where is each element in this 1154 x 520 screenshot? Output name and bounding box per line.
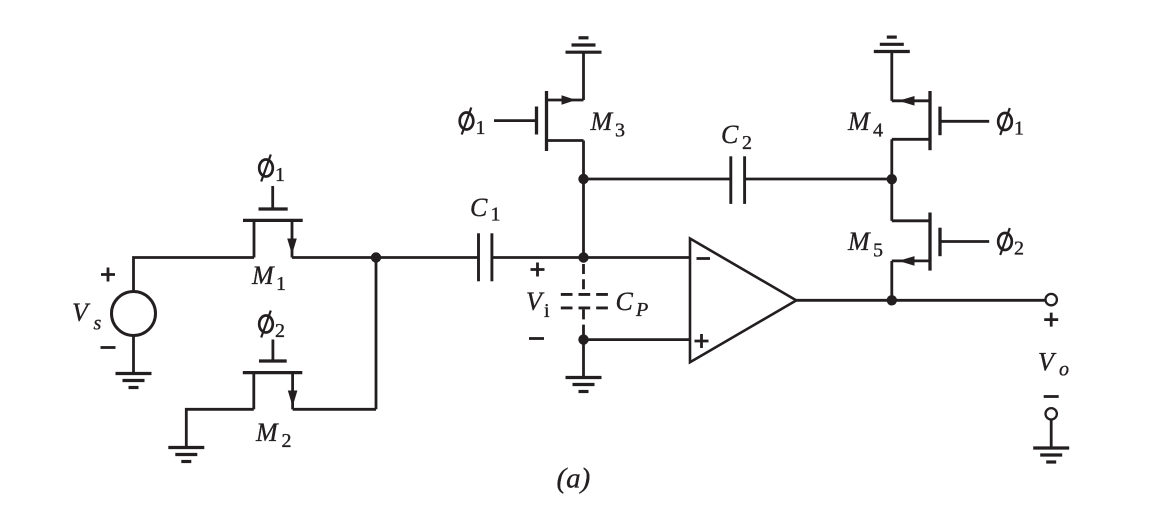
label Vo xyxy=(1038,348,1069,381)
ground below Vs xyxy=(116,374,152,388)
ground below output xyxy=(1033,448,1069,462)
svg-text:1: 1 xyxy=(1014,118,1024,140)
svg-text:M: M xyxy=(847,227,871,256)
op-amp U1 xyxy=(690,239,796,363)
ground below node E xyxy=(566,378,602,392)
transistor M4 xyxy=(892,91,989,150)
label Vi xyxy=(526,287,550,322)
minus sign of Vi xyxy=(529,337,544,340)
transistor M1 xyxy=(243,186,303,258)
wire node A vertical xyxy=(375,258,378,410)
capacitor C1 xyxy=(479,233,492,281)
svg-text:C: C xyxy=(470,193,488,222)
wire op-amp output to terminal xyxy=(796,299,1045,302)
label phi2 of M2 xyxy=(259,311,285,343)
wire M3 source down to node C xyxy=(582,141,585,180)
label M3 xyxy=(590,107,626,142)
transistor M3 xyxy=(494,91,584,151)
node F junction dot xyxy=(887,295,897,305)
svg-text:5: 5 xyxy=(873,240,883,262)
wire node E to ground xyxy=(582,340,585,378)
label phi1 of M1 xyxy=(259,155,285,187)
label Vs xyxy=(72,298,102,335)
minus sign of Vo xyxy=(1044,395,1059,398)
svg-text:1: 1 xyxy=(476,117,486,139)
dashed wire node B down to CP xyxy=(582,264,585,294)
node C junction dot xyxy=(578,174,588,184)
svg-text:1: 1 xyxy=(491,204,501,226)
plus sign of Vs xyxy=(101,268,115,282)
svg-text:C: C xyxy=(616,287,634,316)
svg-text:s: s xyxy=(94,313,102,335)
svg-text:M: M xyxy=(255,418,279,447)
transistor M2 xyxy=(243,340,302,410)
wire terminal to ground xyxy=(1050,420,1053,449)
output terminal circle (+) xyxy=(1046,294,1057,305)
wire Vs top to M1 source xyxy=(134,258,255,292)
node A junction dot xyxy=(371,252,381,262)
transistor M5 xyxy=(892,213,989,271)
wire M5 source down to output node F xyxy=(890,261,893,300)
minus sign of Vs xyxy=(101,346,116,349)
svg-text:M: M xyxy=(590,107,614,136)
label M2 xyxy=(255,418,292,452)
wire Vs bottom to ground xyxy=(132,336,135,374)
svg-text:M: M xyxy=(251,261,275,290)
label CP xyxy=(616,287,649,321)
node B junction dot xyxy=(578,252,588,262)
svg-text:3: 3 xyxy=(615,120,625,142)
svg-text:(a): (a) xyxy=(557,463,591,495)
wire node C to C2 xyxy=(584,178,731,181)
caption (a) xyxy=(557,463,591,495)
svg-text:2: 2 xyxy=(1014,238,1024,260)
wire ground to M4 drain xyxy=(890,52,893,101)
label C2 xyxy=(721,120,752,154)
wire ground to M3 drain xyxy=(582,52,585,100)
wire node B up to node C xyxy=(582,179,585,258)
label phi1 of M4 xyxy=(998,108,1024,140)
capacitor CP (dashed, parasitic) xyxy=(561,294,608,308)
label phi1 of M3 xyxy=(460,108,486,140)
ground above M4 (inverted) xyxy=(874,37,910,51)
svg-text:o: o xyxy=(1059,359,1069,381)
svg-text:2: 2 xyxy=(742,132,752,154)
plus sign of Vo xyxy=(1044,313,1058,327)
voltage source Vs xyxy=(112,292,156,336)
svg-text:1: 1 xyxy=(275,164,285,186)
svg-text:i: i xyxy=(544,300,550,322)
label M1 xyxy=(251,261,286,295)
wire M1 drain to C1 xyxy=(292,256,479,259)
svg-text:2: 2 xyxy=(282,430,292,452)
wire C1 to op-amp inverting input xyxy=(492,256,690,259)
capacitor C2 xyxy=(731,156,745,204)
label M4 xyxy=(847,107,883,142)
node E junction dot xyxy=(578,334,588,344)
svg-text:2: 2 xyxy=(275,320,285,342)
wire M4 source down to node D xyxy=(890,139,893,179)
svg-text:V: V xyxy=(1038,348,1057,377)
ground below M2 xyxy=(168,448,204,462)
svg-text:C: C xyxy=(721,120,739,149)
svg-text:V: V xyxy=(72,298,91,327)
node D junction dot xyxy=(887,174,897,184)
dashed wire CP down to node E xyxy=(582,309,585,339)
wire node E to op-amp non-inverting input xyxy=(584,338,691,341)
ground above M3 (inverted) xyxy=(566,38,602,52)
svg-text:P: P xyxy=(635,299,648,321)
label M5 xyxy=(847,227,883,262)
output terminal circle (-) xyxy=(1046,408,1057,419)
wire node D down to M5 drain xyxy=(890,179,893,221)
label C1 xyxy=(470,193,501,226)
plus sign of Vi xyxy=(531,263,545,277)
wire M2 source to ground xyxy=(186,409,254,447)
svg-text:M: M xyxy=(847,107,871,136)
svg-text:1: 1 xyxy=(276,273,286,295)
svg-text:4: 4 xyxy=(873,120,883,142)
label phi2 of M5 xyxy=(998,228,1024,260)
wire C2 to node D xyxy=(745,178,892,181)
wire M2 drain to node A xyxy=(293,408,376,411)
svg-text:V: V xyxy=(526,287,545,316)
